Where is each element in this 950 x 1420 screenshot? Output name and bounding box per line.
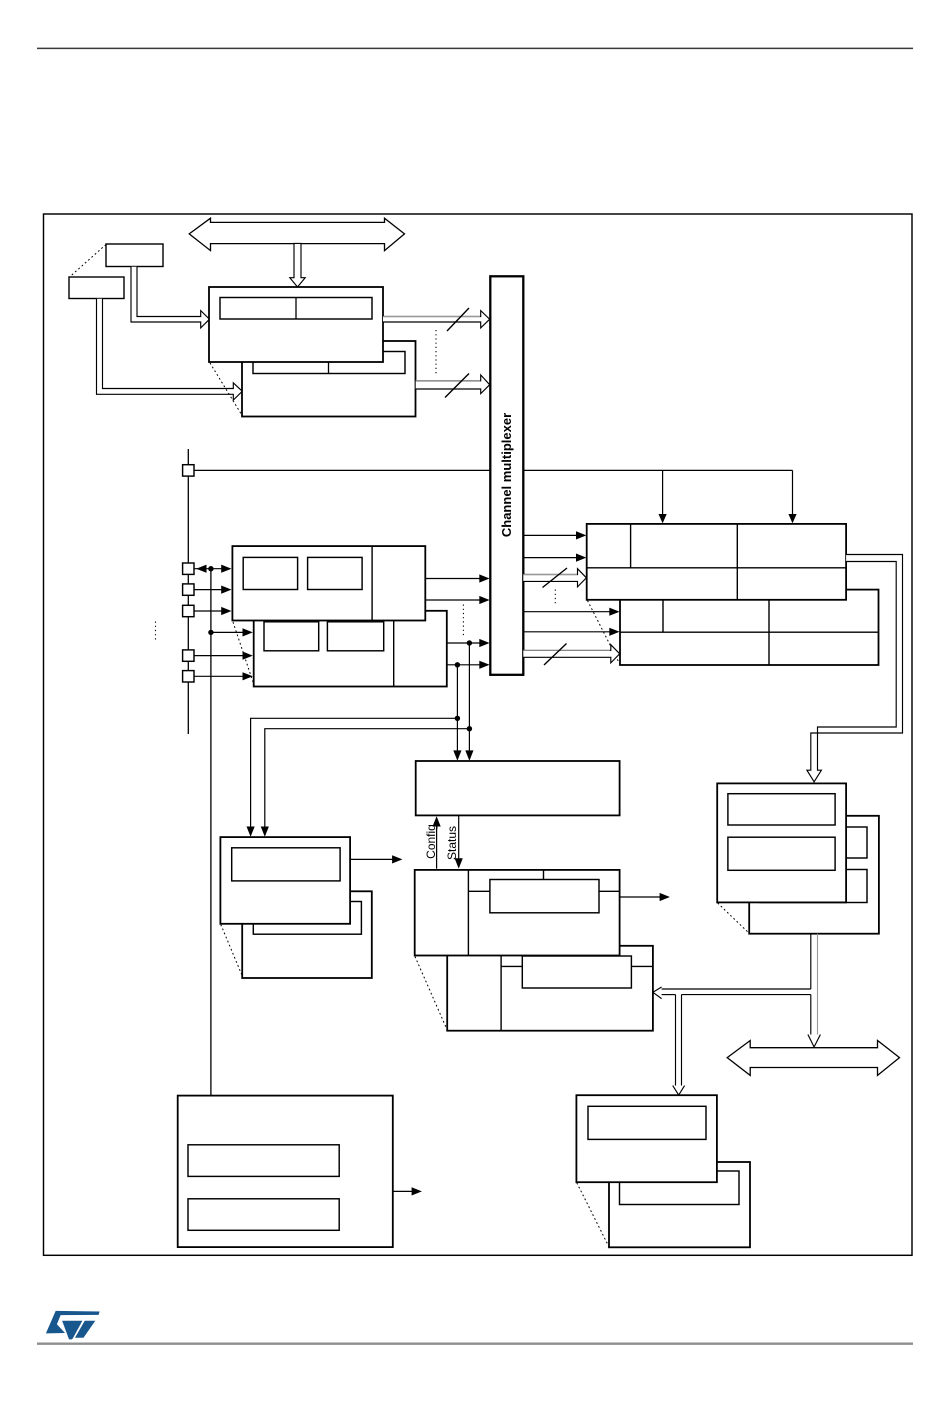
wire: left branch to watchdog 1 (251, 718, 458, 828)
wire: filter output arrow (620, 896, 662, 898)
pin P3 (183, 605, 194, 616)
box R2: digital filter (behind) (620, 590, 879, 665)
wire W2: S2 to box B2 (hollow L arrow) (97, 299, 243, 400)
bus slash on B2 wire (416, 380, 480, 382)
box B2 inner: split register box (253, 352, 405, 374)
bus slash on B1 wire (383, 316, 480, 318)
box W1: watchdog front box (220, 837, 350, 924)
wire: horizontal hollow branch to filter shadow (661, 988, 811, 990)
node: junction at y718 (455, 716, 460, 721)
wire: mux to R2 in 2 (523, 631, 611, 633)
box D2 inner 2 (760, 870, 867, 903)
wire: bus to interface box (hollow down arrow) (290, 243, 305, 287)
wire W1: S1 to box B1 (hollow L arrow) (131, 267, 210, 328)
wire: Config (up arrow) (436, 825, 438, 869)
stack mark: dotted diagonal D1-D2 (718, 903, 749, 933)
footer rule (37, 1342, 913, 1344)
box F1 inner (490, 880, 599, 913)
pin P0 (top square) (183, 465, 194, 476)
box B1 inner: split register box (220, 298, 372, 320)
wire: mux to R2 bus (hollow arrow) (523, 645, 619, 663)
wire: tap to M2 (211, 631, 244, 633)
box BL inner 2 (188, 1199, 339, 1231)
stack mark: dotted diagonal E1-E2 (577, 1183, 609, 1247)
box S1: register stub (upper small box) (106, 244, 163, 267)
wire: hollow arrowhead down to peripheral bus arrow (808, 1035, 821, 1048)
pin P2 (183, 584, 194, 595)
pin P4 (183, 650, 194, 661)
diagram frame (44, 214, 913, 1255)
wire: R1 output loop to DMA box (hollow path) (807, 555, 903, 782)
ellipsis: dotted left of rail (155, 622, 157, 643)
box D1 inner 2 (728, 837, 835, 870)
ellipsis: dotted right of mux (554, 590, 556, 605)
box E1: event front box (576, 1095, 717, 1182)
wire: M2 out 2 drop to control box (456, 665, 458, 753)
box D2: DMA shadow box (749, 816, 879, 934)
wire: watchdog output arrow (350, 858, 394, 860)
node: junction on M2 out 1 (467, 640, 472, 645)
box B1: upper wide box (209, 287, 383, 362)
wire: B1 to channel multiplexer (hollow bus arrow) (383, 311, 490, 328)
node: junction tap to M2 (208, 630, 213, 635)
wire: mux to R1 in 2 (523, 557, 578, 559)
box R1: digital filter (front) (587, 524, 846, 600)
wire: P4 to M2 (194, 655, 244, 657)
box M1 inner A (243, 557, 297, 589)
svg-text:Status: Status (445, 826, 459, 860)
wire: M1 out 2 to mux (425, 599, 481, 601)
stack mark: dotted diagonal M1-M2 (233, 622, 254, 685)
box U-MUX: channel multiplexer (490, 276, 523, 675)
box E2: event shadow box (bottom right) (609, 1162, 750, 1247)
box D1: DMA front box (717, 783, 846, 902)
ellipsis: dotted right of M boxes (462, 605, 464, 639)
bus arrow: peripheral bus (bottom double-headed) (727, 1041, 899, 1076)
wire: M2 out 2 to mux (447, 664, 481, 666)
stack mark: dotted diagonal S1-S2 (70, 245, 107, 278)
long wire: right segment to R1 arrows (523, 469, 792, 471)
wire: DMA shadow down to bus net (hollow) (810, 934, 812, 989)
box D1 inner 1 (728, 794, 835, 825)
svg-text:Channel multiplexer: Channel multiplexer (499, 413, 514, 537)
box E2 inner (620, 1171, 740, 1205)
wire: left branch to watchdog 2 (265, 729, 470, 829)
wire: mux to R1 in 1 (523, 534, 578, 536)
box M2 inner C (264, 622, 319, 651)
pin P5 (183, 671, 194, 682)
box W2: watchdog shadow box (242, 891, 372, 978)
bus arrow: system bus (top double-headed) (189, 218, 404, 250)
box BL: clock/output box (bottom left) (178, 1096, 393, 1248)
node: junction on M2 out 2 (455, 662, 460, 667)
stack mark: dotted diagonal W1-W2 (221, 925, 243, 977)
box F2 inner (522, 956, 631, 988)
wire: BL output arrow (393, 1190, 414, 1192)
box W2 inner (253, 902, 361, 935)
wire: hollow branch down to event box (675, 995, 677, 1086)
box F1: filter front box (415, 870, 620, 956)
box M2: serial transceiver (behind) (254, 611, 447, 687)
long wire: pin rail to R1 top arrows (left segment) (194, 469, 490, 471)
wire: M1 out 1 to mux (425, 578, 481, 580)
inner vertical wire (taps to bottom box) (210, 569, 212, 1096)
box W1 inner (232, 848, 340, 881)
wire: P3 to M1 (194, 610, 223, 612)
box S2: register stub (lower small box) (69, 277, 124, 299)
wire: P1 bidirectional to M1 (194, 568, 223, 570)
node: junction at y728 (467, 726, 472, 731)
node: junction on P1 wire (208, 566, 213, 571)
box M1: serial transceiver (front) (232, 546, 425, 620)
box M1 inner B (308, 557, 363, 589)
bus slash on mux-R1 wire (523, 574, 577, 576)
wire: mux to R1 bus (hollow arrow) (523, 569, 586, 587)
box D2 inner 1 (760, 827, 867, 858)
stack mark: dotted diagonal B1-B2 (210, 363, 242, 415)
wire: Status (down arrow) (458, 815, 460, 860)
ellipsis: dotted between B wires (435, 330, 437, 374)
stack mark: dotted diagonal F1-F2 (415, 957, 447, 1030)
bus slash on mux-R2 wire (523, 649, 610, 651)
box B2: lower wide box (behind B1) (242, 341, 416, 417)
svg-text:Config: Config (424, 824, 438, 859)
pin P1 (183, 563, 194, 574)
wire: M2 out 1 to mux (447, 642, 481, 644)
box BL inner 1 (188, 1145, 339, 1177)
wire: B2 to channel multiplexer (hollow bus arrow) (416, 375, 490, 394)
wire: mux to R2 in 1 (523, 611, 611, 613)
box U-CTRL: control/registers box (416, 761, 620, 815)
header rule (37, 47, 913, 49)
wire: P2 to M1 (194, 589, 223, 591)
pin rail (187, 449, 189, 734)
box E1 inner (588, 1106, 706, 1139)
wire: P5 to M2 (194, 675, 244, 677)
ST logo (46, 1311, 100, 1340)
box M2 inner D (327, 622, 383, 651)
wire: M2 out 1 drop to control box (468, 643, 470, 753)
stack mark: dotted diagonal R1-R2 (588, 601, 620, 664)
box F2: filter shadow box (447, 946, 653, 1031)
